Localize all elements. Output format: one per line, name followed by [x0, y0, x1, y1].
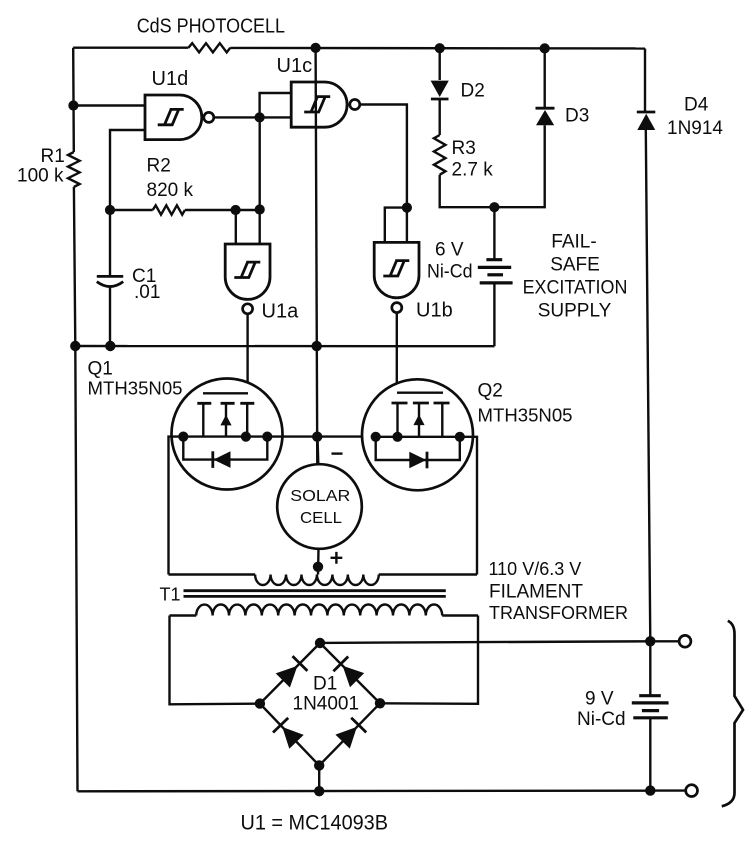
svg-text:TRANSFORMER: TRANSFORMER — [489, 603, 628, 623]
node transformer label — [489, 559, 629, 623]
wire minus rail — [75, 345, 494, 348]
svg-text:D3: D3 — [565, 106, 589, 127]
svg-text:Ni-Cd: Ni-Cd — [577, 709, 626, 730]
wire U1d output to U1c — [214, 116, 291, 118]
svg-text:U1b: U1b — [416, 300, 453, 322]
wire R2 rail — [110, 209, 153, 211]
svg-text:T1: T1 — [160, 585, 181, 605]
wire secondary left to bridge — [170, 616, 260, 705]
node output terminal top — [679, 635, 691, 647]
wire solar cell bottom lead — [317, 549, 320, 575]
wire bottom rail — [78, 790, 651, 793]
svg-text:FAIL-: FAIL- — [551, 232, 596, 253]
svg-text:CELL: CELL — [300, 510, 342, 527]
diode bridge top-left — [276, 656, 308, 687]
wire U1d input bottom — [110, 130, 145, 210]
node U1a output bubble — [243, 304, 253, 314]
node minus rail / solar column — [312, 341, 322, 351]
wire Q1 source to transformer left — [169, 437, 184, 575]
node FAIL-SAFE text — [523, 232, 628, 322]
wire U1b left input branch — [385, 208, 407, 243]
diode D2 — [431, 48, 485, 135]
node U1c output bubble — [350, 100, 360, 110]
node output junction top — [645, 636, 655, 646]
node bridge left vertex — [255, 698, 265, 708]
battery 9V Ni-Cd — [577, 641, 669, 790]
resistor R1 — [17, 146, 80, 187]
svg-text:D4: D4 — [684, 95, 709, 116]
node bridge right vertex — [375, 698, 385, 708]
svg-text:U1 = MC14093B: U1 = MC14093B — [241, 812, 389, 835]
battery 6V Ni-Cd — [427, 207, 513, 346]
diode D4 — [637, 49, 724, 642]
wire Q2 source to transformer right — [460, 437, 477, 575]
svg-text:820 k: 820 k — [147, 180, 194, 201]
wire solar cell top lead — [316, 437, 319, 465]
svg-text:Ni-Cd: Ni-Cd — [427, 262, 473, 283]
svg-text:R2: R2 — [147, 156, 171, 177]
node left rail / U1d input — [68, 100, 78, 110]
node output junction bottom — [645, 785, 655, 795]
svg-text:CdS PHOTOCELL: CdS PHOTOCELL — [137, 16, 285, 38]
node plus label — [331, 552, 343, 564]
svg-text:6 V: 6 V — [435, 240, 464, 261]
svg-text:2.7 k: 2.7 k — [452, 160, 494, 181]
svg-text:SUPPLY: SUPPLY — [538, 301, 612, 322]
svg-text:1N914: 1N914 — [667, 118, 723, 139]
node transformer center tap — [313, 562, 323, 572]
wire U1a right input — [259, 210, 261, 245]
wire solar column vertical (top rail to solar cell) — [316, 48, 318, 470]
wire to bottom output terminal — [650, 789, 685, 791]
svg-text:U1c: U1c — [277, 55, 313, 77]
wire top rail right segment — [230, 47, 645, 50]
solar cell — [277, 464, 362, 549]
resistor R2 — [147, 156, 194, 215]
node top rail / D2 — [435, 43, 445, 53]
wire feedback to R2 rail — [259, 117, 261, 209]
svg-text:D2: D2 — [461, 81, 485, 102]
node U1d output junction — [255, 112, 265, 122]
svg-text:110 V/6.3 V: 110 V/6.3 V — [489, 559, 582, 579]
transistor Q1 — [88, 359, 283, 490]
wire bridge bottom to rail — [318, 766, 320, 792]
svg-text:SOLAR: SOLAR — [290, 488, 350, 505]
wire secondary right to bridge — [380, 616, 478, 704]
diode D3 — [536, 48, 590, 126]
svg-text:1N4001: 1N4001 — [293, 694, 360, 715]
wire U1a output to Q1 gate — [203, 314, 248, 394]
node minus label — [332, 452, 343, 454]
wire R2 rail right — [185, 209, 260, 211]
wire to top output terminal — [650, 640, 679, 642]
node output terminal bottom — [686, 785, 698, 797]
transformer T1 secondary — [170, 605, 479, 616]
node U1b output bubble — [392, 303, 402, 313]
svg-text:Q2: Q2 — [478, 381, 503, 402]
transistor Q2 — [362, 379, 573, 490]
op-amp U1a (Schmitt NAND gate) — [225, 244, 299, 323]
svg-text:R3: R3 — [452, 138, 476, 159]
node U1d output bubble — [204, 112, 214, 122]
node top rail / D3 — [540, 43, 550, 53]
diode bridge D1 outline — [260, 643, 380, 766]
wire U1d input top — [73, 104, 145, 106]
op-amp U1d (Schmitt NAND gate) — [145, 68, 202, 140]
node top rail / solar column — [311, 43, 321, 53]
diode bridge top-right — [333, 657, 364, 688]
op-amp U1c (Schmitt NAND gate) — [277, 55, 348, 127]
node left rail / minus rail — [70, 341, 80, 351]
svg-text:SAFE: SAFE — [550, 255, 600, 276]
node bridge bottom vertex — [314, 760, 324, 770]
node U1 part number label — [241, 812, 389, 835]
node U1b input junction — [402, 203, 412, 213]
svg-text:MTH35N05: MTH35N05 — [478, 406, 573, 426]
node bottom rail / bridge — [314, 786, 324, 796]
transformer T1 core — [160, 585, 446, 605]
diode bridge bottom-right — [335, 718, 366, 749]
op-amp U1b (Schmitt NAND gate) — [374, 242, 453, 321]
wire U1c output to U1b — [360, 105, 407, 243]
node fail-safe supply junction — [489, 202, 499, 212]
svg-text:9 V: 9 V — [585, 689, 614, 710]
node drain rail / solar column — [312, 432, 322, 442]
node C1 / minus rail — [105, 341, 115, 351]
node output brace — [722, 621, 743, 807]
wire U1a left input — [235, 210, 237, 244]
svg-text:R1: R1 — [41, 146, 65, 167]
node bridge top vertex — [315, 638, 325, 648]
wire bridge output top — [320, 641, 650, 643]
transformer T1 primary — [169, 575, 478, 586]
svg-text:FILAMENT: FILAMENT — [489, 582, 583, 603]
svg-text:100 k: 100 k — [17, 166, 64, 187]
wire U1b output to Q2 gate — [397, 313, 443, 393]
diode bridge bottom-left — [273, 718, 304, 749]
node R2 rail right end — [255, 204, 265, 214]
resistor R3 — [434, 135, 493, 181]
wire top rail left segment — [73, 47, 188, 49]
wire U1c upper input branch — [260, 93, 292, 117]
node R2 rail / U1a left input — [231, 205, 241, 215]
node R2 / C1 / U1d junction — [105, 205, 115, 215]
svg-text:U1d: U1d — [152, 68, 189, 90]
wire R3 bottom to D3 bottom — [440, 125, 545, 207]
wire left rail upper — [72, 48, 75, 152]
svg-text:D1: D1 — [313, 674, 337, 695]
svg-text:EXCITATION: EXCITATION — [523, 278, 628, 299]
resistor CdS photocell — [137, 16, 285, 53]
svg-text:U1a: U1a — [262, 301, 300, 323]
capacitor C1 — [97, 210, 161, 346]
wire Q1 drain to Q2 drain rail — [267, 435, 375, 437]
svg-text:Q1: Q1 — [88, 359, 113, 380]
wire left rail lower — [74, 187, 78, 791]
svg-text:.01: .01 — [134, 282, 160, 303]
svg-text:MTH35N05: MTH35N05 — [88, 379, 183, 399]
